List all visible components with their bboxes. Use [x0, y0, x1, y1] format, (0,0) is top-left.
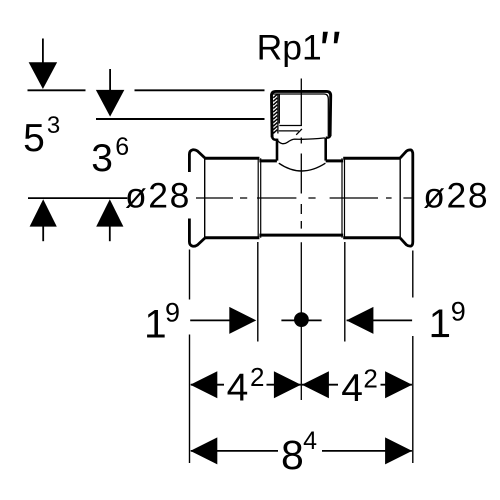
dim 84 line: [191, 450, 412, 452]
svg-text:4: 4: [341, 367, 363, 410]
dim 84 right arrowhead: [385, 437, 412, 464]
dim 53 reference line to branch: [135, 89, 265, 91]
dim 42 left end arrowhead: [274, 371, 301, 398]
dim 42 left start arrowhead: [190, 371, 217, 398]
tee body: left press-end bead capsule: [189, 150, 204, 247]
saddle intersection arc: [279, 163, 326, 171]
branch neck left edge: [276, 139, 279, 161]
bore bottom lines: [279, 126, 302, 131]
dim 19 left line: [190, 319, 254, 321]
dim 53 arrowhead: [29, 62, 58, 89]
dim 36 lower stem: [109, 225, 111, 241]
branch neck right edge: [324, 138, 327, 161]
dim 19 right line: [347, 319, 413, 321]
svg-text:1: 1: [429, 302, 451, 346]
double prime mark 1: [322, 32, 328, 44]
dim 84 left arrowhead: [190, 437, 217, 464]
svg-text:ø28: ø28: [423, 175, 489, 215]
mask 42 left label: [224, 364, 267, 401]
dim 42 left line: [191, 384, 301, 386]
thread runout diagonal: [296, 129, 302, 135]
dim 36 reference line: [96, 118, 265, 120]
dim 53 vertical arrow: [42, 39, 44, 66]
tube outline: [259, 161, 343, 235]
svg-text:8: 8: [281, 432, 304, 478]
dim 36 vertical arrow: [109, 69, 111, 92]
svg-text:2: 2: [363, 363, 377, 393]
mask for left diameter label: [128, 172, 196, 219]
branch right step to neck: [326, 135, 330, 137]
double prime mark 2: [334, 32, 340, 44]
break-out wavy line: [277, 138, 324, 144]
right socket outline: [343, 158, 401, 237]
extension line left end: [189, 250, 191, 464]
extension line left insertion plane: [257, 242, 259, 342]
dim 36 arrowhead: [96, 90, 125, 117]
svg-text:9: 9: [165, 297, 180, 327]
svg-text:5: 5: [23, 117, 45, 160]
branch left step to neck: [272, 136, 277, 140]
centerline horizontal (run axis): [196, 197, 413, 199]
dim 42 right end arrowhead: [385, 371, 412, 398]
dim 53 reference line: [28, 89, 86, 91]
svg-text:3: 3: [91, 137, 113, 180]
serif foot of 1 right: [432, 334, 448, 337]
svg-text:4: 4: [303, 427, 317, 455]
branch outer outline: [272, 91, 331, 137]
svg-text:2: 2: [250, 362, 264, 392]
svg-text:ø28: ø28: [125, 176, 191, 216]
left press-end mouth line: [204, 158, 206, 237]
dim 42 right line: [302, 384, 412, 386]
dim 36 up arrowhead on axis: [96, 199, 123, 226]
internal thread zigzag (section): [273, 94, 277, 133]
centerline left reference segment: [28, 197, 127, 199]
branch axis marker line: [281, 319, 321, 321]
mask 84 label: [278, 430, 322, 470]
dim 19 left arrowhead: [229, 307, 256, 334]
thread crest line: [277, 94, 279, 134]
thread root line: [278, 94, 280, 124]
dim 19 right arrowhead: [346, 307, 373, 334]
dim 53 lower stem: [42, 225, 44, 241]
centerline vertical (branch axis): [300, 79, 302, 401]
dim 42 right start arrowhead: [302, 371, 329, 398]
svg-text:9: 9: [451, 296, 466, 326]
left socket outline: [204, 158, 259, 237]
svg-text:1: 1: [144, 302, 166, 346]
branch bore inner top and right line: [273, 94, 328, 136]
right press-end mouth line: [399, 158, 401, 237]
left socket/tube junction lines: [258, 158, 261, 237]
svg-text:6: 6: [115, 133, 129, 161]
svg-text:3: 3: [47, 112, 60, 139]
right press-end bead capsule: [400, 150, 413, 246]
dim 53 up arrowhead on axis: [30, 199, 57, 226]
mask 42 right label: [338, 364, 381, 401]
extension line right end: [412, 251, 414, 464]
right socket/tube junction lines: [342, 158, 345, 237]
branch axis dot: [294, 312, 309, 327]
svg-text:4: 4: [227, 367, 249, 410]
svg-text:Rp1: Rp1: [257, 27, 322, 67]
extension line right insertion plane: [344, 242, 346, 342]
serif foot of 1 left: [147, 335, 163, 338]
